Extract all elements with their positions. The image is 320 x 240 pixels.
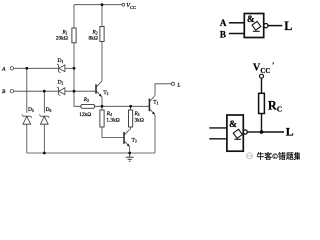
- wire R5 bottom to T3 collector: [130, 127, 132, 130]
- node P dot: [73, 90, 76, 93]
- svg-text:R5: R5: [134, 111, 140, 117]
- gate G1 input wire B: [229, 33, 244, 35]
- node dot ground rail / T3 emitter: [128, 152, 131, 155]
- node dot output L2: [260, 130, 264, 134]
- diode D1: [57, 64, 65, 73]
- wire D5 to ground rail: [26, 124, 28, 153]
- wire node P down to R3: [74, 91, 81, 106]
- wire B drop to D6: [43, 91, 45, 113]
- transistor T2: [96, 81, 102, 97]
- svg-text:20kΩ: 20kΩ: [56, 36, 68, 42]
- svg-text:3kΩ: 3kΩ: [135, 118, 144, 124]
- svg-text:8kΩ: 8kΩ: [88, 36, 97, 42]
- node dot VCC rail / R2: [101, 3, 104, 6]
- resistor RC: [259, 93, 265, 113]
- svg-text:R4: R4: [106, 111, 112, 117]
- wire ground rail: [27, 152, 155, 154]
- resistor R3: [81, 104, 95, 108]
- svg-text:牛客©错题集: 牛客©错题集: [257, 151, 301, 161]
- node dot rail / R4 / T2 emitter: [101, 105, 104, 108]
- svg-text:T3: T3: [132, 138, 137, 144]
- diode D6: [39, 114, 49, 124]
- svg-text:A: A: [220, 19, 227, 29]
- svg-text:T1: T1: [153, 100, 158, 106]
- terminal A: [10, 67, 13, 70]
- svg-text:RC: RC: [268, 99, 282, 114]
- svg-text:D1: D1: [58, 58, 64, 64]
- wire R5 top: [130, 106, 132, 110]
- diode D2: [57, 87, 65, 96]
- node dot A / D5 drop: [25, 67, 28, 70]
- wire input B: [14, 90, 58, 92]
- gate G1 output bubble: [264, 24, 268, 28]
- wire T2 emitter down to rail: [101, 97, 103, 107]
- node dot ground rail / D6: [43, 152, 46, 155]
- terminal B: [10, 90, 13, 93]
- wire R3 to T1 base rail: [95, 105, 149, 107]
- gate G2 open-collector diamond: [233, 129, 244, 140]
- svg-text:&: &: [229, 119, 237, 130]
- node dot rail / R5: [129, 105, 132, 108]
- diode D5: [22, 114, 32, 124]
- wire D1 anode to R1 line: [65, 67, 74, 69]
- wire top VCC rail: [74, 4, 122, 6]
- svg-text:R3: R3: [83, 97, 89, 103]
- svg-text:1.3kΩ: 1.3kΩ: [106, 118, 119, 124]
- resistor R5: [129, 110, 133, 127]
- wire D2 anode to node P to T2 base: [65, 90, 96, 92]
- watermark logo: [247, 153, 253, 159]
- svg-text:D2: D2: [58, 80, 64, 86]
- wire R1 bottom to node P: [73, 43, 75, 91]
- wire RC to node: [261, 114, 263, 133]
- resistor R1: [72, 28, 76, 43]
- gate G1 box: [244, 14, 263, 38]
- svg-text:A: A: [1, 66, 6, 72]
- wire gate G2 output to node: [247, 131, 261, 133]
- wire T1 emitter down: [154, 115, 156, 153]
- wire node to L2: [262, 131, 285, 133]
- transistor T3: [124, 129, 130, 146]
- wire D6 to ground rail: [43, 124, 45, 153]
- resistor R2: [100, 27, 104, 42]
- svg-text:L: L: [286, 125, 294, 139]
- wire R4 top: [101, 106, 103, 110]
- wire T1 collector to L terminal: [155, 84, 171, 96]
- wire input A: [14, 67, 58, 69]
- wire R2 bottom to T2 collector: [101, 42, 103, 81]
- transistor T1: [149, 95, 155, 115]
- terminal VCC prime: [260, 74, 264, 78]
- wire VCC prime to RC: [261, 78, 263, 93]
- svg-text:VCC: VCC: [126, 3, 136, 10]
- wire R1 top: [73, 5, 75, 28]
- resistor R4: [100, 110, 104, 127]
- svg-text:L: L: [176, 82, 180, 88]
- svg-text:T2: T2: [103, 90, 108, 96]
- svg-text:D6: D6: [46, 107, 52, 113]
- svg-text:D5: D5: [28, 107, 34, 113]
- node dot B / D6 drop: [43, 90, 46, 93]
- node dot D1 anode / R1 line: [73, 67, 76, 70]
- wire R2 top: [101, 5, 103, 27]
- svg-text:B: B: [220, 31, 226, 41]
- terminal VCC: [122, 3, 125, 6]
- gate G2 box: [227, 115, 243, 151]
- gate G1 input wire A: [229, 22, 244, 24]
- svg-text:12kΩ: 12kΩ: [79, 112, 91, 118]
- svg-text:L: L: [284, 19, 292, 33]
- gate G2 input stub 1: [209, 127, 227, 129]
- svg-text:B: B: [2, 89, 6, 95]
- gate G1 open-collector diamond: [251, 21, 261, 31]
- svg-text:VCC′: VCC′: [253, 60, 275, 75]
- ground: [126, 153, 134, 161]
- gate G2 input stub 2: [209, 138, 227, 140]
- wire A drop to D5: [26, 68, 28, 113]
- wire T3 emitter to ground: [129, 147, 131, 153]
- wire R4 bottom to T3 base: [102, 127, 123, 138]
- gate G1 output wire: [268, 25, 282, 27]
- gate G2 output bubble: [243, 130, 247, 134]
- terminal L output: [171, 82, 174, 85]
